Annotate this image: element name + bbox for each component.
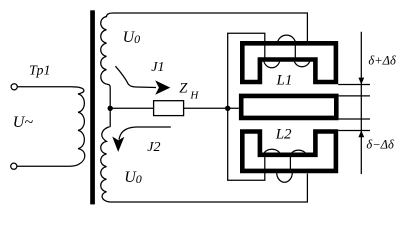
inductor L2 winding bbox=[264, 149, 307, 182]
terminal (bottom input) bbox=[11, 163, 17, 169]
wire bbox=[17, 165, 70, 167]
svg-text:U0: U0 bbox=[124, 169, 142, 186]
svg-text:δ−Δδ: δ−Δδ bbox=[366, 137, 394, 151]
svg-text:L1: L1 bbox=[276, 73, 293, 89]
wire bbox=[17, 86, 71, 88]
svg-text:J2: J2 bbox=[147, 140, 160, 155]
inductor L1 core bbox=[242, 43, 336, 82]
dimension line bbox=[360, 32, 362, 174]
inductor L1 winding bbox=[264, 35, 311, 68]
svg-text:Z: Z bbox=[179, 81, 188, 97]
svg-text:U0: U0 bbox=[123, 29, 141, 46]
secondary winding U0 top with top wire bbox=[101, 13, 308, 108]
node A bbox=[108, 106, 113, 111]
transformer Tp1 primary winding bbox=[70, 87, 85, 166]
svg-text:J1: J1 bbox=[151, 60, 164, 75]
svg-text:U~: U~ bbox=[13, 114, 34, 131]
resistor ZH bbox=[154, 101, 184, 116]
wire (middle to load) bbox=[110, 107, 239, 109]
current arrow J2 bbox=[119, 127, 171, 140]
svg-text:Тр1: Тр1 bbox=[29, 64, 50, 79]
inductor L2 core bbox=[242, 132, 336, 171]
extension line (armature bottom) bbox=[339, 118, 370, 120]
svg-text:δ+Δδ: δ+Δδ bbox=[368, 54, 396, 68]
current arrow J1 bbox=[115, 66, 156, 87]
extension line (armature top) bbox=[339, 95, 370, 97]
wire (loop to L1/L2 windings) bbox=[228, 33, 265, 180]
svg-text:L2: L2 bbox=[275, 127, 292, 143]
terminal (top input) bbox=[11, 84, 17, 90]
extension line (L2 leg top) bbox=[338, 130, 370, 132]
armature bbox=[241, 96, 336, 118]
dimension arrow up bbox=[358, 130, 364, 137]
secondary winding U0 bottom with bottom wire bbox=[101, 108, 308, 202]
svg-text:H: H bbox=[189, 89, 199, 101]
node B bbox=[225, 106, 230, 111]
dimension arrow down bbox=[358, 78, 364, 85]
transformer core bbox=[90, 10, 95, 204]
extension line (L1 leg bottom) bbox=[338, 84, 370, 86]
